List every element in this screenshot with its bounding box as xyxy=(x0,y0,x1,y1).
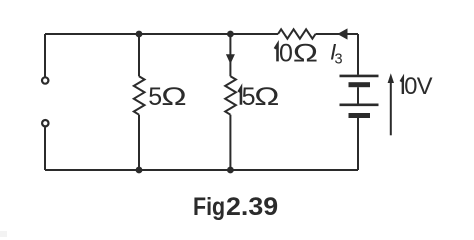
junction dot top-right node xyxy=(227,31,234,38)
junction dot top-left node xyxy=(136,31,143,38)
wire battery to bottom xyxy=(357,118,359,170)
label 15 ohm : digit 1 xyxy=(239,88,241,105)
wire top right horizontal xyxy=(316,33,359,35)
current arrow I3 head (points left) xyxy=(337,28,347,39)
svg-text:Fig: Fig xyxy=(193,192,225,220)
junction dot bottom-right node xyxy=(227,167,234,174)
resistor R2 15ohm zigzag xyxy=(225,76,236,114)
wire top left horizontal xyxy=(45,33,278,35)
terminal upper open circle xyxy=(42,77,48,83)
junction dot bottom-left node xyxy=(136,167,143,174)
label 10V : digit 1 xyxy=(401,78,403,94)
wire left vertical upper xyxy=(44,34,46,77)
wire between battery cells xyxy=(357,87,359,103)
wire right vertical to battery xyxy=(357,34,359,75)
battery V1 long plate 2 xyxy=(340,104,379,107)
svg-text:0: 0 xyxy=(279,39,293,67)
label 10 ohm : digit 1 xyxy=(275,45,278,62)
wire left vertical lower xyxy=(44,127,46,170)
wire branch 15ohm lower xyxy=(229,115,231,170)
wire branch 15ohm upper xyxy=(229,34,231,76)
svg-text:2.39: 2.39 xyxy=(226,194,278,221)
voltage arrow 10V head (points up) xyxy=(388,73,394,83)
svg-text:3: 3 xyxy=(335,51,343,67)
wire branch 5ohm lower xyxy=(138,115,140,170)
terminal lower open circle xyxy=(42,120,48,126)
battery V1 long plate 1 xyxy=(340,75,379,78)
svg-text:Ω: Ω xyxy=(293,39,318,67)
resistor R3 10ohm zigzag xyxy=(278,29,316,38)
branch current arrow head (points down) xyxy=(226,54,235,64)
faint page-edge smudge bottom-left xyxy=(0,231,7,237)
battery V1 short plate 1 xyxy=(349,82,371,87)
wire bottom horizontal xyxy=(45,169,358,171)
voltage arrow 10V line xyxy=(390,81,392,135)
wire branch 5ohm upper xyxy=(138,34,140,76)
battery V1 short plate 2 xyxy=(349,113,371,118)
svg-text:Ω: Ω xyxy=(161,83,186,111)
svg-text:5: 5 xyxy=(148,83,162,111)
svg-text:Ω: Ω xyxy=(254,83,279,111)
resistor R1 5ohm zigzag xyxy=(134,76,145,114)
svg-text:0V: 0V xyxy=(404,74,433,100)
